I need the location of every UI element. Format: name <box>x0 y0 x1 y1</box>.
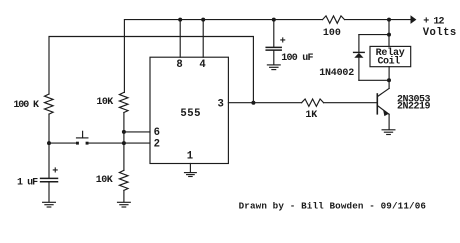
wire feedback (output up over to 100K top) <box>49 37 253 103</box>
wire top rail (right segment to supply arrow) <box>345 19 411 21</box>
wire pin 1 to ground <box>189 164 191 173</box>
wire diode bottom link <box>359 79 389 81</box>
node: pin 8 junction on rail <box>178 18 182 22</box>
svg-text:1: 1 <box>187 150 193 162</box>
svg-text:+ 12: + 12 <box>423 16 444 27</box>
svg-text:+: + <box>280 37 286 48</box>
svg-text:1K: 1K <box>305 110 317 121</box>
node: divider mid at pin 6 line <box>122 130 126 134</box>
svg-text:2N2219: 2N2219 <box>397 102 431 113</box>
diode D1 1N4002 <box>354 35 365 81</box>
ground (emitter Q1) <box>382 130 395 135</box>
push button S1 (momentary) <box>76 131 89 144</box>
resistor R4 10K (lower divider) <box>119 170 128 190</box>
wire 1K to base <box>324 102 377 104</box>
capacitor C2 100uF <box>266 20 281 65</box>
wire 100K bottom to trigger node <box>48 114 50 143</box>
node: pin 4 junction on rail <box>201 18 205 22</box>
svg-text:+: + <box>52 166 58 177</box>
wire relay coil bottom to collector <box>388 67 390 89</box>
svg-text:2: 2 <box>154 138 160 150</box>
node: output junction <box>251 101 255 105</box>
node: 100uF junction on rail <box>272 18 276 22</box>
svg-text:4: 4 <box>199 59 206 71</box>
wire diode top link <box>359 34 389 36</box>
svg-text:100 K: 100 K <box>13 100 39 111</box>
node: collector junction <box>387 78 391 82</box>
wire pin 3 output <box>228 102 301 104</box>
wire trigger node to push button <box>49 142 76 144</box>
svg-text:Drawn by - Bill Bowden - 09/11: Drawn by - Bill Bowden - 09/11/06 <box>239 201 427 212</box>
node: divider mid at pin 2 line <box>122 141 126 145</box>
svg-text:6: 6 <box>154 127 160 139</box>
wire pin 8 to rail <box>179 20 181 58</box>
resistor R1 100 <box>323 16 345 23</box>
transistor Q1 <box>377 88 389 129</box>
svg-text:10K: 10K <box>96 175 113 186</box>
ground (1uF) <box>43 202 56 207</box>
ground (pin 1) <box>185 173 197 177</box>
capacitor C1 1uF <box>41 143 58 202</box>
svg-text:1N4002: 1N4002 <box>319 68 354 79</box>
svg-text:100: 100 <box>323 28 341 39</box>
wire 10K lower to ground <box>123 190 125 202</box>
resistor R2 100K <box>45 94 54 114</box>
ground (100uF) <box>267 65 280 70</box>
node: collector branch junction on rail <box>387 18 391 22</box>
wire pin 6 <box>124 131 150 133</box>
wire push button to pin 2 <box>89 142 151 144</box>
ground (divider) <box>118 202 131 207</box>
wire divider mid section <box>123 113 125 171</box>
svg-text:1 uF: 1 uF <box>17 177 38 188</box>
resistor R3 10K (upper divider) <box>119 92 128 112</box>
svg-text:555: 555 <box>180 108 201 120</box>
svg-text:10K: 10K <box>96 97 113 108</box>
svg-text:100 uF: 100 uF <box>281 53 313 64</box>
node: trigger/cap junction <box>47 141 51 145</box>
resistor R5 1K <box>302 99 324 106</box>
svg-text:8: 8 <box>176 59 182 71</box>
node: diode top junction <box>387 33 391 37</box>
+12 Volts supply arrow <box>411 15 417 24</box>
svg-text:Coil: Coil <box>378 56 401 68</box>
svg-text:Volts: Volts <box>423 27 457 39</box>
relay coil box <box>370 46 411 66</box>
svg-text:3: 3 <box>218 98 224 110</box>
wire pin 4 to rail <box>202 20 204 58</box>
wire +12 top rail (left segment, corner down to 10K R3 top) <box>124 20 322 93</box>
wire collector rail upper <box>388 20 390 47</box>
op-amp / IC U1 555 timer box <box>150 57 228 163</box>
